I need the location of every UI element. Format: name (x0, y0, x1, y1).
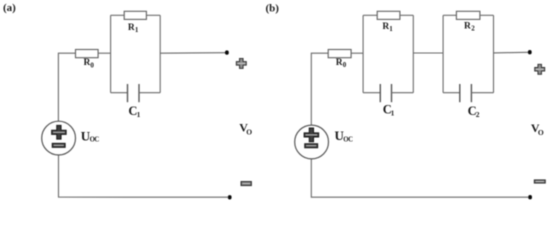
value label U_OC (a) (81, 128, 100, 143)
value label R0 (a) (84, 58, 95, 69)
terminal minus symbol (b) (534, 180, 545, 183)
svg-text:(b): (b) (266, 2, 280, 14)
svg-text:R: R (464, 22, 471, 32)
value label C2 (b) (468, 104, 480, 119)
terminal plus symbol (a) (236, 58, 246, 68)
wire: loop bottom-left segment (a) (111, 92, 128, 94)
svg-text:OC: OC (343, 137, 353, 144)
resistor R1 (b) (377, 11, 400, 19)
label V_O (a) (239, 121, 252, 137)
wire: loop to positive output terminal (a) (160, 52, 225, 55)
wire: loop1 top-left segment (b) (363, 14, 377, 16)
resistor R1 (a) (124, 11, 146, 19)
resistor R0 (b) (328, 50, 351, 58)
svg-text:1: 1 (389, 25, 393, 33)
svg-text:R: R (128, 23, 135, 33)
svg-text:1: 1 (137, 110, 141, 119)
wire: loop2 bottom-right segment (b) (471, 92, 493, 94)
node: negative output terminal dot (b) (528, 195, 532, 199)
value label R1 (b) (382, 22, 393, 33)
voltage source U_OC circle (a) (42, 121, 76, 155)
minus symbol inside source (b) (305, 144, 318, 148)
wire: source bottom down and across to negative terminal (a) (59, 155, 229, 197)
resistor R0 (a) (76, 50, 99, 58)
wire: R0 to first RC loop (b) (351, 52, 363, 54)
svg-text:2: 2 (471, 25, 475, 33)
wire: loop2 bottom-left segment (b) (443, 92, 460, 94)
svg-text:2: 2 (476, 110, 480, 119)
terminal minus symbol (a) (241, 182, 251, 186)
wire: loop1 left edge (b) (362, 15, 364, 92)
wire: loop bottom-right segment (a) (139, 92, 160, 94)
wire: source top up and across to R0 (a) (58, 53, 75, 121)
wire: loop top-right segment (a) (146, 14, 160, 16)
wire: loop2 top-left segment (b) (443, 14, 456, 16)
svg-text:0: 0 (90, 61, 94, 69)
wire: loop top-left segment (a) (111, 14, 125, 16)
wire: R0 to RC loop (a) (98, 52, 111, 54)
capacitor C1 (b) (380, 84, 391, 102)
node: positive output terminal dot (a) (225, 50, 229, 54)
wire: loop2 left edge (b) (442, 15, 444, 92)
value label U_OC (b) (335, 128, 354, 143)
value label R0 (b) (336, 58, 347, 69)
plus symbol inside source (b) (304, 128, 319, 142)
value label C1 (b) (383, 103, 395, 118)
label V_O (b) (531, 121, 544, 137)
node: positive output terminal dot (b) (528, 50, 532, 54)
value label R1 (a) (128, 23, 139, 34)
capacitor C2 (b) (460, 84, 472, 102)
svg-text:0: 0 (343, 61, 347, 69)
value label C1 (a) (128, 104, 140, 119)
terminal plus symbol (b) (535, 64, 545, 74)
wire: loop left edge (a) (110, 15, 112, 92)
node: negative output terminal dot (a) (228, 195, 232, 199)
svg-text:1: 1 (135, 26, 139, 34)
plus symbol inside source (a) (52, 125, 67, 139)
svg-text:(a): (a) (3, 2, 16, 14)
wire: loop1 to loop2 (b) (413, 52, 443, 54)
voltage source U_OC circle (b) (295, 125, 329, 159)
svg-text:R: R (336, 58, 343, 68)
resistor R2 (b) (456, 11, 480, 19)
capacitor C1 (a) (128, 84, 140, 102)
svg-text:OC: OC (90, 137, 100, 144)
wire: loop2 right edge (b) (493, 15, 495, 92)
wire: loop1 bottom-left segment (b) (363, 92, 380, 94)
wire: loop1 bottom-right segment (b) (392, 92, 414, 94)
wire: loop1 top-right segment (b) (400, 14, 413, 16)
value label R2 (b) (464, 22, 475, 33)
wire: loop2 top-right segment (b) (480, 14, 494, 16)
svg-text:O: O (246, 127, 252, 136)
minus symbol inside source (a) (52, 143, 65, 147)
svg-text:O: O (538, 128, 544, 137)
wire: source top up and across to R0 (b) (311, 53, 328, 125)
wire: loop1 right edge (b) (412, 15, 414, 92)
wire: loop2 to positive output terminal (b) (494, 51, 529, 54)
svg-text:1: 1 (391, 109, 395, 118)
wire: loop right edge (a) (159, 15, 161, 92)
wire: source bottom down and across to negative terminal (b) (311, 159, 528, 197)
